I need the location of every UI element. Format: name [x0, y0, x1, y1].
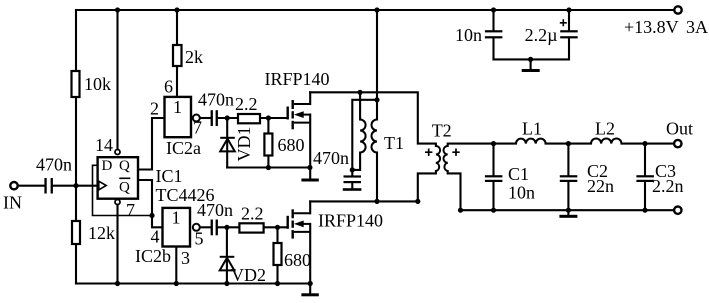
svg-text:Q: Q	[119, 158, 130, 174]
svg-text:10n: 10n	[455, 25, 482, 45]
svg-text:3: 3	[181, 248, 190, 268]
wire 10k bottom to 12k top through input node	[75, 97, 77, 221]
inductor L1	[516, 139, 546, 144]
resistor R 2k	[173, 45, 182, 66]
wire 470n cap branch at T1	[352, 100, 377, 170]
wire Q1 drain up	[309, 92, 311, 104]
svg-text:2.2: 2.2	[235, 94, 258, 114]
svg-text:D: D	[102, 158, 113, 174]
wire bottom ground rail	[76, 282, 310, 284]
svg-text:VD2: VD2	[231, 265, 266, 285]
resistor R 2.2 bottom	[239, 223, 263, 232]
ground at top caps	[522, 69, 540, 72]
resistor R 2.2 top	[238, 114, 260, 123]
svg-text:7: 7	[193, 118, 202, 138]
wire VD1 branch	[226, 118, 228, 168]
wire C1 top lead	[492, 144, 494, 176]
wire 2k to IC2a pin6	[176, 66, 178, 97]
transistor Q1 IRFP140	[288, 100, 311, 129]
wire C3 top lead	[644, 144, 646, 176]
IC1 pin7 bubble	[115, 200, 120, 205]
svg-text:3A: 3A	[686, 17, 708, 37]
capacitor 470n at IC2a out	[211, 110, 218, 126]
svg-text:470n: 470n	[313, 148, 349, 168]
wire top cap ground link	[494, 58, 570, 60]
wire left drop to R 10k	[75, 10, 77, 71]
IC2b out bubble	[193, 224, 200, 231]
wire filter top L1 left	[494, 143, 517, 145]
IC2a out bubble	[193, 115, 200, 122]
transformer T2	[436, 146, 448, 171]
wire IC2a out bubble to cap	[200, 117, 210, 119]
polarity plus of 2.2u	[560, 19, 567, 26]
wire IC2b out bubble to cap	[200, 226, 210, 228]
wire driver1 ground rail	[227, 166, 310, 168]
svg-text:22n: 22n	[587, 176, 614, 196]
wire T1 right bottom to drain bus 2	[376, 153, 378, 202]
wire R2.2 to gate Q1	[260, 117, 287, 119]
wire C1 bottom lead	[492, 182, 494, 210]
ground at Q1 source	[301, 179, 318, 182]
svg-text:L1: L1	[522, 119, 542, 139]
wire C2 bottom lead	[567, 182, 569, 210]
T2 plus right	[452, 149, 459, 156]
capacitor 470n at IN	[44, 178, 52, 194]
svg-text:VD1: VD1	[234, 127, 254, 162]
diode VD2	[220, 257, 235, 271]
wire C2 ground stem	[567, 210, 569, 215]
wire T2 right top to filter	[448, 144, 494, 146]
transformer T1	[360, 120, 377, 153]
ground at C2	[559, 215, 577, 218]
svg-text:+13.8V: +13.8V	[624, 17, 679, 37]
svg-text:T1: T1	[384, 133, 404, 153]
wire IC2b pin3	[175, 247, 177, 284]
svg-text:IRFP140: IRFP140	[318, 211, 383, 231]
wire R2.2b to gate Q2	[264, 226, 287, 228]
wire Qbar output down to feedback node	[138, 180, 152, 216]
wire cap to R2.2 top	[218, 117, 238, 119]
wire C2 top lead	[567, 144, 569, 176]
capacitor 470n at IC2b out	[211, 220, 218, 236]
svg-text:14: 14	[95, 135, 113, 155]
wire Q2 drain up	[309, 201, 311, 213]
svg-text:5: 5	[195, 229, 204, 249]
svg-text:4: 4	[151, 227, 160, 247]
resistor R 680 top	[264, 134, 272, 156]
svg-text:10n: 10n	[508, 183, 535, 203]
wire D feedback	[93, 165, 153, 215]
wire filter bottom rail	[461, 209, 674, 211]
capacitor 2.2u top	[560, 30, 578, 38]
wire T2 left bottom	[418, 171, 436, 201]
wire 10n cap drop	[492, 10, 494, 30]
ground at T1 cap	[343, 188, 362, 191]
svg-text:2: 2	[150, 99, 159, 119]
svg-text:2.2: 2.2	[241, 204, 264, 224]
wire 2k drop	[176, 10, 178, 45]
inductor L2	[591, 139, 622, 144]
svg-text:680: 680	[278, 135, 305, 155]
IC2b gate box	[163, 208, 191, 247]
capacitor C2	[560, 175, 578, 182]
svg-text:470n: 470n	[198, 90, 234, 110]
Q2 arrow	[294, 221, 304, 228]
wire 680b top	[276, 227, 278, 243]
wire cap2 to R2.2b	[218, 226, 240, 228]
ground at Q2 source	[301, 293, 318, 296]
wire L1 right to C2 node	[546, 143, 591, 145]
svg-text:IC2a: IC2a	[166, 138, 201, 158]
svg-text:L2: L2	[595, 119, 615, 139]
wire top power rail	[76, 9, 673, 11]
wire IC1 pin7 to ground rail	[116, 205, 118, 283]
svg-text:IC1: IC1	[156, 166, 183, 186]
IC2a gate box	[165, 97, 192, 137]
svg-text:T2: T2	[432, 121, 452, 141]
svg-text:6: 6	[164, 77, 173, 97]
wire 680a bottom	[267, 156, 269, 168]
svg-text:680: 680	[284, 250, 311, 270]
terminal Out top	[674, 140, 681, 147]
wire Q output to IC2a pin2	[138, 118, 165, 170]
wire L2 right to out	[622, 143, 674, 145]
diode VD1	[220, 138, 235, 152]
T2 plus left	[425, 149, 432, 156]
wire VD2 branch	[226, 227, 228, 283]
wire 2.2u cap drop	[568, 10, 570, 30]
resistor R 12k	[72, 221, 80, 244]
svg-text:7: 7	[126, 200, 135, 220]
wire Q1 source to ground	[309, 115, 311, 179]
terminal +13.8V	[674, 6, 681, 13]
wire drain bus to T2	[310, 92, 436, 146]
svg-text:2k: 2k	[185, 47, 203, 67]
wire T2 right bottom	[448, 171, 461, 210]
wire pin14 drop	[116, 10, 118, 149]
IC1 clock triangle	[99, 181, 106, 190]
wire drain bus 2	[310, 200, 418, 202]
IC1 pin14 bubble	[115, 150, 120, 155]
wire power drop to T1 right	[376, 10, 378, 120]
svg-text:Out: Out	[666, 119, 693, 139]
svg-text:12k: 12k	[88, 223, 115, 243]
svg-text:1: 1	[172, 208, 181, 228]
wire C3 bottom lead	[644, 182, 646, 210]
wire T1 left top lead	[359, 92, 361, 119]
terminal Out bottom	[674, 207, 681, 214]
wire 12k bottom to ground rail	[75, 244, 77, 284]
capacitor 470n at T1	[344, 175, 362, 183]
wire IN cap to clock input	[19, 185, 44, 187]
svg-text:C1: C1	[508, 164, 529, 184]
svg-text:470n: 470n	[197, 200, 233, 220]
svg-text:IC2b: IC2b	[135, 246, 171, 266]
terminal IN	[10, 182, 17, 189]
svg-text:470n: 470n	[36, 155, 72, 175]
resistor R 680 bottom	[274, 243, 282, 265]
IC1 flip-flop box	[98, 157, 138, 199]
Q1 arrow	[294, 111, 304, 118]
wire T1 left bottom to cap node	[352, 153, 360, 170]
svg-text:1: 1	[173, 97, 182, 117]
svg-text:Q: Q	[119, 180, 130, 196]
svg-text:IRFP140: IRFP140	[265, 69, 330, 89]
wire feedback node to IC2b pin4	[152, 216, 163, 228]
wire top ground stem	[530, 59, 532, 69]
transistor Q2 IRFP140	[288, 209, 311, 238]
capacitor C1	[485, 175, 503, 182]
resistor R 10k	[72, 71, 80, 97]
svg-text:IN: IN	[3, 193, 22, 213]
capacitor 10n top	[485, 30, 503, 38]
wire 680b bottom	[276, 265, 278, 284]
wire 680a top	[267, 118, 269, 134]
capacitor C3	[636, 175, 654, 182]
wire Q2 source down	[309, 224, 311, 284]
svg-text:10k: 10k	[84, 74, 111, 94]
svg-text:2.2n: 2.2n	[652, 176, 684, 196]
svg-text:2.2µ: 2.2µ	[525, 25, 558, 45]
wire Q2 source ground stem	[309, 284, 311, 294]
